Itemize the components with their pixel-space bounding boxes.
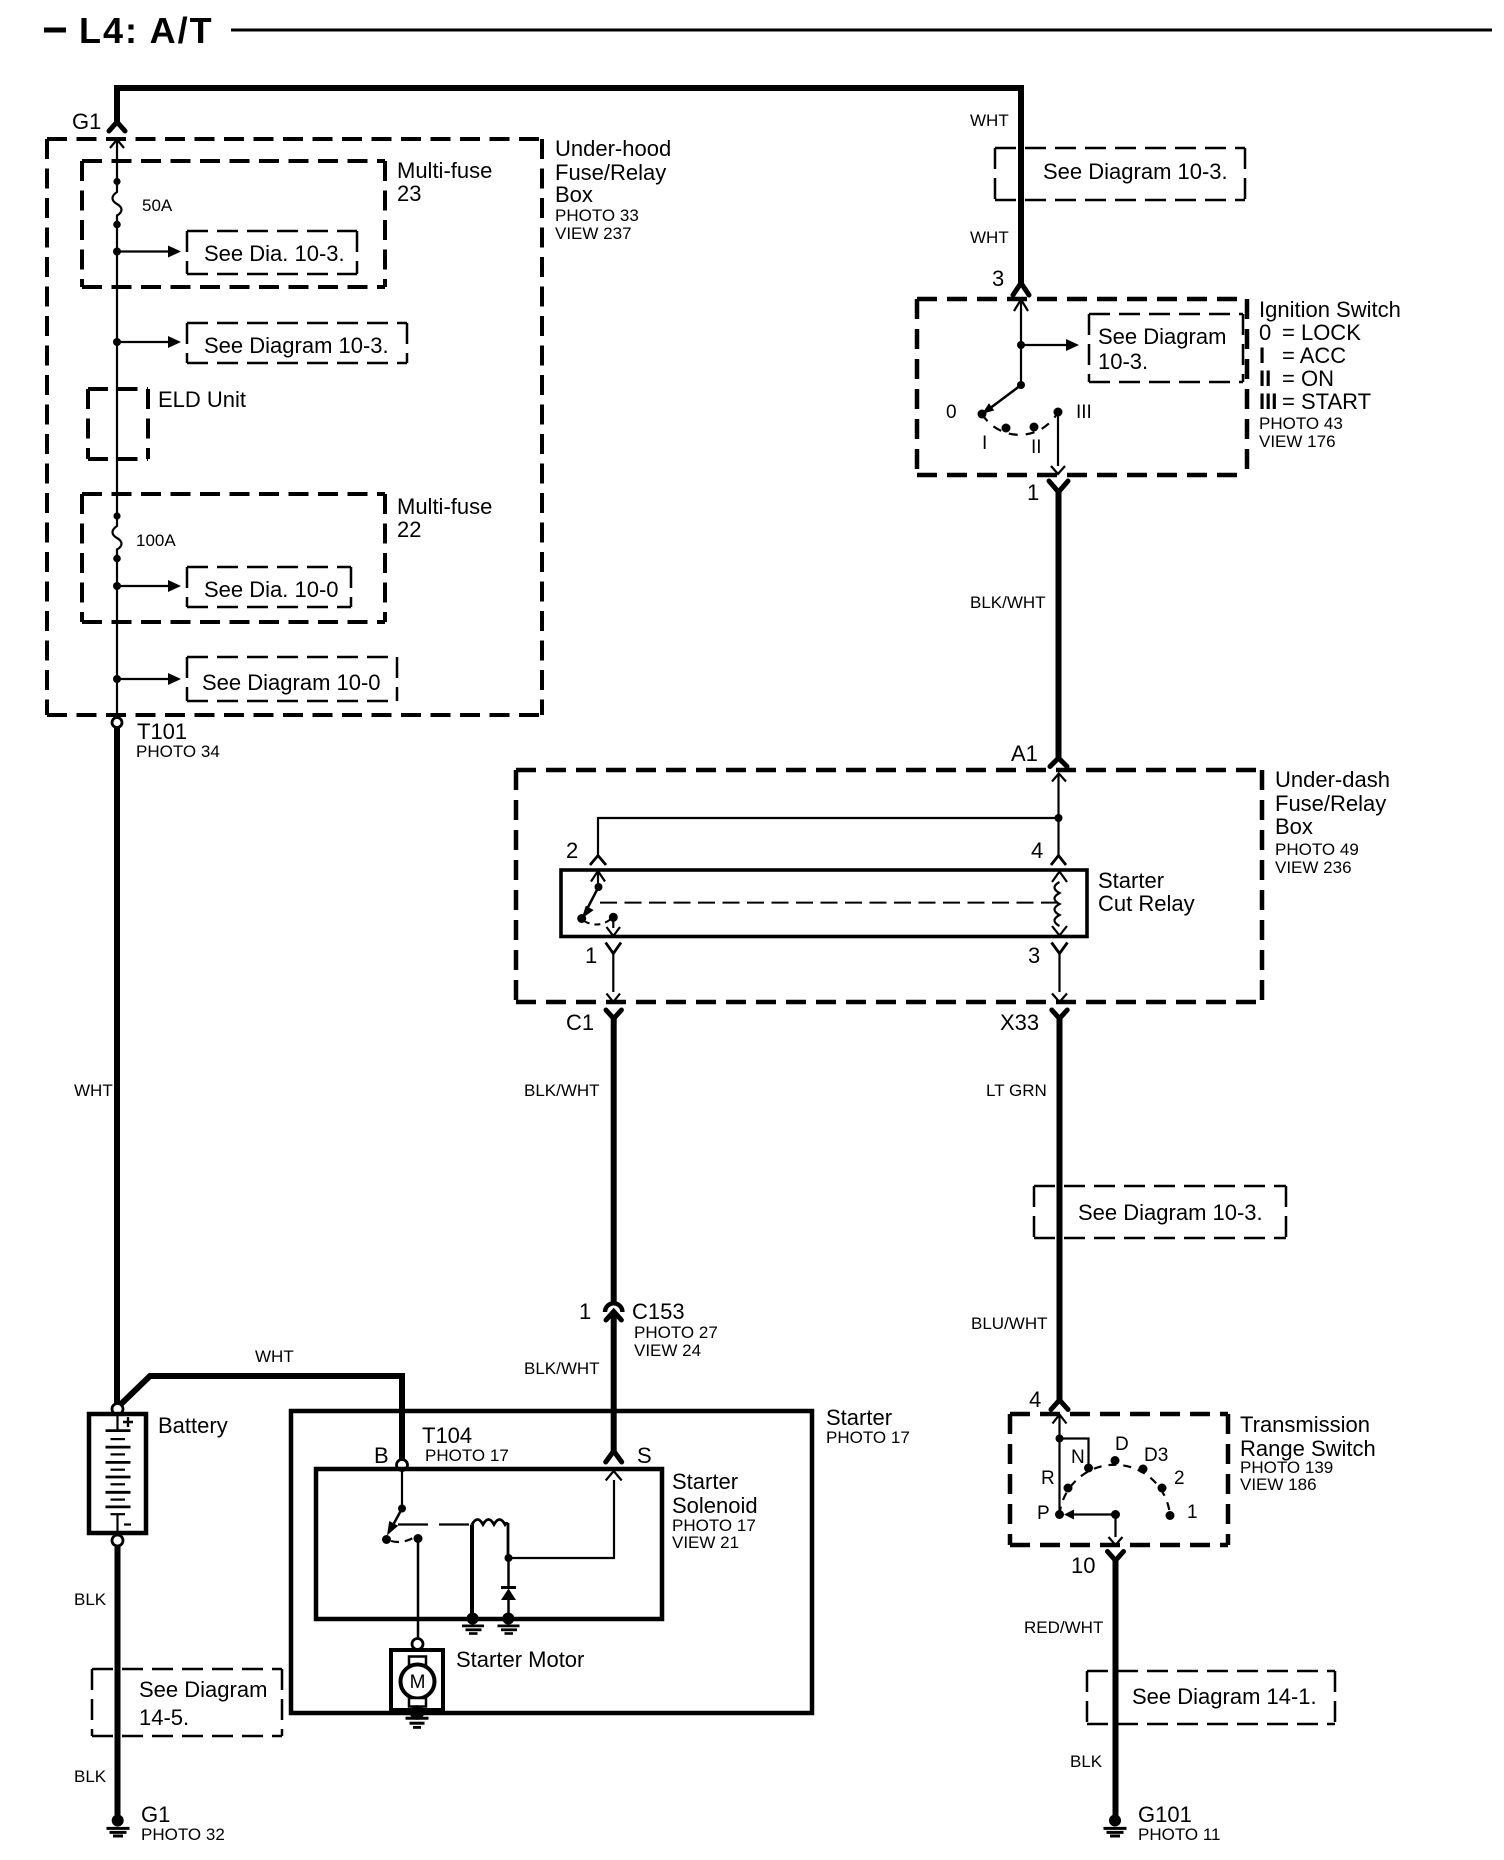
svg-text:Fuse/Relay: Fuse/Relay [1275,791,1386,816]
motor brush top [409,1657,426,1666]
wire to starter motor [417,1539,420,1639]
svg-text:10-3.: 10-3. [1098,349,1148,374]
svg-text:WHT: WHT [74,1081,113,1100]
relay terminal chevron 3 [1052,943,1068,954]
svg-text:Starter: Starter [672,1469,738,1494]
see diagram 10-3 box [187,323,407,363]
starter motor box [391,1650,443,1710]
svg-text:P: P [1037,1503,1050,1524]
title rule [231,29,1492,32]
svg-text:1: 1 [1027,480,1039,505]
svg-text:PHOTO 11: PHOTO 11 [1138,1825,1221,1844]
wire relay 1 to C1 [612,954,614,993]
svg-text:1: 1 [585,943,597,968]
ground G101 [1109,1815,1121,1827]
svg-text:3: 3 [1028,943,1040,968]
relay terminal chevron 2 [590,856,606,866]
svg-text:23: 23 [397,181,421,206]
contact R [1064,1484,1073,1493]
wire: battery feed top run G1 to ignition 3 [117,88,1021,283]
wire branch arrow 1 [117,250,169,252]
svg-text:L4: A/T: L4: A/T [79,10,214,51]
contact II [1030,423,1039,432]
svg-text:Multi-fuse: Multi-fuse [397,494,492,519]
svg-text:Cut Relay: Cut Relay [1098,891,1195,916]
svg-text:Box: Box [555,182,593,207]
diode [501,1586,516,1589]
transmission range switch box [1010,1414,1228,1545]
svg-text:A1: A1 [1011,741,1038,766]
wire battery to starter B WHT [120,1376,402,1459]
arrow into under-hood box [110,140,124,149]
title tick [44,28,66,33]
svg-text:R: R [1041,1468,1055,1489]
svg-text:VIEW 186: VIEW 186 [1240,1475,1317,1494]
wire battery to G1 BLK [115,1546,121,1816]
svg-text:BLK: BLK [1070,1752,1103,1771]
svg-text:22: 22 [397,517,421,542]
ELD unit box [88,389,148,459]
wire C1 to C153 BLK/WHT [611,1018,617,1305]
svg-text:BLK/WHT: BLK/WHT [524,1081,600,1100]
svg-text:G101: G101 [1138,1802,1192,1827]
contact P [1055,1510,1064,1519]
svg-text:LT GRN: LT GRN [986,1081,1047,1100]
TRS link to N contact [1060,1439,1089,1469]
solenoid contact dash [391,1538,413,1542]
battery [89,1414,146,1533]
svg-text:14-5.: 14-5. [139,1705,189,1730]
motor circle M [401,1665,435,1699]
svg-text:BLK/WHT: BLK/WHT [524,1359,600,1378]
svg-text:= LOCK: = LOCK [1282,320,1361,345]
svg-text:III: III [1076,402,1092,423]
svg-text:See Dia. 10-0: See Dia. 10-0 [204,577,339,602]
multi-fuse 22 box [82,494,385,622]
coil left leg [470,1525,474,1615]
arrow into ignition box [1014,300,1028,312]
TRS wiper arrow at P [1064,1510,1074,1520]
svg-text:BLK: BLK [74,1590,107,1609]
see dia 10-0 box [187,567,351,607]
svg-text:D3: D3 [1144,1445,1168,1466]
relay terminal chevron 1 [606,943,621,954]
starter motor terminal [412,1639,423,1650]
svg-text:Multi-fuse: Multi-fuse [397,158,492,183]
svg-text:See Diagram 10-0: See Diagram 10-0 [202,670,381,695]
svg-text:N: N [1071,1447,1085,1468]
wire C153 to S BLK/WHT [611,1313,617,1451]
svg-text:See Diagram 10-3.: See Diagram 10-3. [204,333,389,358]
solenoid motor node [414,1534,423,1543]
contact I [1002,424,1011,433]
contact D3 [1139,1465,1148,1474]
svg-text:See Dia. 10-3.: See Dia. 10-3. [204,241,345,266]
starter cut relay box [561,870,1087,937]
ground G1 [112,1815,124,1827]
contact 0 [978,410,987,419]
svg-text:100A: 100A [136,531,176,550]
svg-text:I: I [982,433,987,454]
fuse 100A [113,512,120,519]
see diagram 10-3 box (inside ignition) [1089,314,1243,382]
svg-text:C1: C1 [566,1010,594,1035]
TRS feed wire [1058,1415,1060,1515]
wire TRS 10 to G101 RED/WHT [1113,1561,1119,1817]
svg-text:Ignition Switch: Ignition Switch [1259,297,1401,322]
TRS output node [1111,1510,1120,1519]
see diagram 10-0 box [187,657,397,701]
svg-text:G1: G1 [72,109,101,134]
connector chevron TRS 4 [1051,1400,1068,1410]
ignition contact arc [982,412,1058,435]
solenoid wiper arm [392,1509,402,1528]
svg-text:VIEW 176: VIEW 176 [1259,432,1336,451]
battery plus terminal [112,1404,123,1415]
relay switch post [597,871,599,887]
diode branch wire [507,1558,510,1587]
wire coil to S [509,1480,615,1558]
solenoid coil [472,1520,508,1525]
ignition wiper pivot [1017,381,1025,389]
connector chevron C1 [606,1010,621,1019]
svg-text:PHOTO 27: PHOTO 27 [634,1323,718,1342]
battery minus terminal [112,1535,123,1546]
wire X33 to TRS 4 LT GRN [1057,1018,1063,1400]
svg-text:4: 4 [1031,838,1043,863]
motor brush bottom [409,1698,426,1707]
relay contact hop dashed [584,919,611,925]
svg-text:= ON: = ON [1282,366,1334,391]
wire branch arrow to see box [1021,344,1067,346]
svg-text:WHT: WHT [970,111,1009,130]
wire III to pin 1 [1057,416,1059,466]
connector chevron S [606,1451,622,1462]
svg-text:I: I [1259,343,1265,368]
svg-text:See Diagram: See Diagram [139,1677,267,1702]
svg-text:II: II [1031,437,1042,458]
svg-text:VIEW 24: VIEW 24 [634,1341,701,1360]
svg-text:X33: X33 [1000,1010,1039,1035]
node branch 4 [113,675,121,683]
wire A1 down to relay 4 [1057,774,1059,856]
svg-text:1: 1 [1187,1502,1198,1523]
svg-text:See Diagram 14-1.: See Diagram 14-1. [1132,1684,1317,1709]
svg-text:RED/WHT: RED/WHT [1024,1618,1103,1637]
connector C153 [605,1303,622,1312]
node ignition branch [1017,341,1025,349]
under-hood fuse/relay box [47,139,542,715]
svg-text:1: 1 [579,1299,591,1324]
see diagram 14-5 box [92,1669,282,1736]
svg-text:VIEW 236: VIEW 236 [1275,858,1352,877]
svg-text:10: 10 [1071,1553,1095,1578]
contact D [1111,1456,1120,1465]
relay contact to pin 1 [612,917,614,928]
wire relay 3 to X33 [1058,954,1060,993]
fuse 50A [113,178,120,185]
relay linkage dashed [600,902,1057,904]
solenoid switch post [401,1471,403,1509]
svg-text:PHOTO 32: PHOTO 32 [141,1825,225,1844]
svg-text:WHT: WHT [970,228,1009,247]
svg-text:Battery: Battery [158,1413,228,1438]
starter solenoid box [316,1469,662,1619]
wire: thin bus inside under-hood box [116,140,118,718]
wire T101 to battery WHT [114,728,120,1405]
TRS wire to pin 10 [1114,1515,1116,1538]
wire ignition 1 to A1 BLK/WHT [1056,492,1062,758]
svg-text:PHOTO 33: PHOTO 33 [555,206,639,225]
svg-text:M: M [410,1672,426,1693]
svg-text:Under-hood: Under-hood [555,136,671,161]
solenoid linkage dashed [398,1523,470,1525]
arrow into TRS box [1053,1415,1067,1424]
svg-text:See Diagram: See Diagram [1098,324,1226,349]
terminal T101 [112,718,122,728]
relay contact fixed [577,914,586,923]
see diagram 10-3 box (right mid) [1034,1186,1286,1238]
see diagram 10-3 box (top right) [995,148,1245,200]
svg-text:PHOTO 34: PHOTO 34 [136,742,220,761]
svg-text:II: II [1259,366,1271,391]
connector chevron ignition 1 [1049,481,1068,492]
node branch 3 [113,582,121,590]
TRS contact arc dashed [1060,1465,1171,1516]
svg-text:ELD Unit: ELD Unit [158,387,246,412]
contact III [1054,408,1063,417]
svg-text:PHOTO 17: PHOTO 17 [425,1446,509,1465]
svg-text:WHT: WHT [255,1347,294,1366]
contact 2 [1158,1484,1167,1493]
svg-text:G1: G1 [141,1802,170,1827]
svg-text:D: D [1115,1434,1129,1455]
svg-text:PHOTO 17: PHOTO 17 [826,1428,910,1447]
contact 1 [1166,1511,1175,1520]
connector chevron at G1 [109,122,125,131]
wire branch arrow 4 [117,678,169,680]
svg-text:B: B [374,1443,389,1468]
svg-text:2: 2 [1174,1468,1185,1489]
svg-text:= ACC: = ACC [1282,343,1346,368]
svg-text:50A: 50A [142,196,173,215]
node branch 2 [113,338,121,346]
svg-text:T101: T101 [137,719,187,744]
coil right leg [507,1523,510,1558]
svg-text:S: S [637,1443,652,1468]
ignition switch box [917,299,1247,475]
node coil out [505,1554,513,1562]
svg-text:Under-dash: Under-dash [1275,767,1390,792]
wire branch arrow 3 [117,585,169,587]
svg-text:VIEW 237: VIEW 237 [555,224,632,243]
svg-text:Transmission: Transmission [1240,1412,1370,1437]
svg-text:III: III [1259,389,1277,414]
see dia 10-3 box (multifuse 23) [187,231,357,274]
relay terminal chevron 4 [1051,856,1066,866]
ground starter motor [410,1705,424,1719]
svg-text:4: 4 [1029,1387,1041,1412]
TRS node [1056,1435,1064,1443]
svg-text:PHOTO 49: PHOTO 49 [1275,840,1359,859]
svg-text:BLK/WHT: BLK/WHT [970,593,1046,612]
svg-text:3: 3 [992,266,1004,291]
solenoid fixed contact [382,1535,391,1544]
wire branch arrow 2 [117,341,169,343]
connector chevron TRS 10 [1108,1552,1124,1561]
ground diode [502,1613,514,1625]
svg-text:0: 0 [946,402,957,423]
svg-text:Starter: Starter [826,1405,892,1430]
svg-text:BLK: BLK [74,1767,107,1786]
connector chevron ignition 3 [1013,283,1029,295]
node branch 1 [113,248,121,256]
terminal circle B [397,1460,408,1471]
svg-text:Box: Box [1275,814,1313,839]
ground coil left [467,1613,479,1625]
relay moving contact [609,913,618,922]
svg-text:2: 2 [566,838,578,863]
under-dash fuse/relay box [516,770,1262,1002]
wire ignition internal [1020,300,1022,386]
ignition wiper arm to 0 [989,385,1021,409]
svg-text:0: 0 [1259,320,1271,345]
starter box [291,1411,812,1713]
svg-text:See Diagram 10-3.: See Diagram 10-3. [1078,1200,1263,1225]
svg-text:= START: = START [1282,389,1371,414]
see diagram 14-1 box [1087,1671,1335,1724]
connector chevron X33 [1052,1010,1067,1019]
arrow into relay at 2 [591,871,605,882]
contact N [1084,1464,1093,1473]
svg-text:Starter Motor: Starter Motor [456,1647,584,1672]
svg-text:See Diagram 10-3.: See Diagram 10-3. [1043,159,1228,184]
multi-fuse 23 box [82,161,385,287]
arrow into under-dash box [1052,774,1066,782]
wire relay feed across [598,818,1059,856]
connector chevron A1 [1050,758,1067,767]
svg-text:T104: T104 [422,1423,472,1448]
svg-text:Solenoid: Solenoid [672,1493,758,1518]
svg-text:Starter: Starter [1098,868,1164,893]
relay coil [1052,872,1067,883]
svg-text:C153: C153 [632,1299,685,1324]
svg-text:VIEW 21: VIEW 21 [672,1533,739,1552]
svg-text:BLU/WHT: BLU/WHT [971,1314,1048,1333]
node junction [1055,814,1063,822]
relay wiper arm [586,887,599,911]
svg-text:PHOTO 43: PHOTO 43 [1259,414,1343,433]
